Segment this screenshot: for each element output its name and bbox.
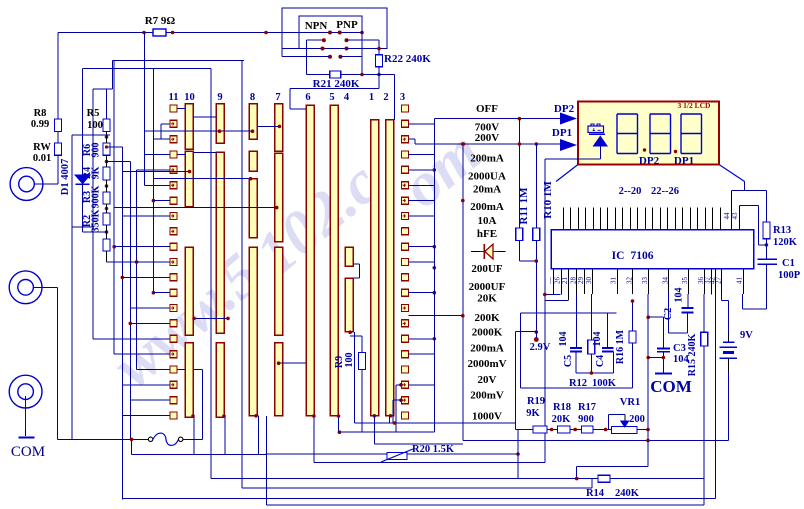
- svg-text:0.01: 0.01: [33, 153, 51, 164]
- svg-text:2000K: 2000K: [472, 326, 503, 338]
- junction 2.9V: [535, 330, 539, 334]
- wire C3 top link: [648, 316, 663, 318]
- wire tap to switch row 18: [137, 368, 170, 370]
- wire tap to switch row 20: [130, 399, 170, 401]
- svg-text:R15 240K: R15 240K: [687, 334, 698, 377]
- svg-text:COM: COM: [11, 444, 45, 460]
- wire socket left leg: [281, 49, 283, 57]
- wire pin35 to C2: [687, 294, 689, 308]
- switch bar col10 seg2: [185, 151, 193, 207]
- battery 9V: [723, 341, 734, 343]
- wire R14 bus: [211, 478, 704, 480]
- resistor R13: [763, 222, 770, 239]
- box around divider resistors: [71, 135, 73, 227]
- svg-text:D1 4007: D1 4007: [60, 159, 71, 195]
- svg-text:2.9V: 2.9V: [530, 342, 551, 353]
- svg-text:20mA: 20mA: [473, 184, 501, 196]
- resistor R10: [533, 228, 540, 241]
- svg-text:DP2: DP2: [639, 155, 660, 167]
- svg-text:C5: C5: [563, 355, 574, 367]
- wire R12 bottom: [590, 354, 592, 373]
- svg-text:R22 240K: R22 240K: [384, 53, 431, 65]
- svg-text:COM: COM: [650, 377, 692, 396]
- wire 200V row: [415, 143, 560, 145]
- wire pin44 to R13: [732, 190, 767, 192]
- wire bus C: [122, 497, 715, 499]
- svg-text:20K: 20K: [477, 293, 497, 305]
- capacitor C5: [570, 347, 582, 349]
- wire C5 bottom: [575, 352, 577, 374]
- IC pin 43: [739, 206, 741, 230]
- wire C1 to pin41: [766, 264, 768, 309]
- IC U1 7106 body: [551, 230, 754, 269]
- wire R21 rail: [307, 74, 395, 76]
- svg-text:43: 43: [731, 212, 739, 220]
- resistor R15: [703, 294, 705, 332]
- switch bar col7 seg3: [275, 247, 283, 335]
- switch bar col8 seg3: [249, 179, 257, 238]
- junction col2 at 423: [393, 421, 397, 425]
- svg-text:C3: C3: [673, 343, 686, 354]
- svg-text:32: 32: [626, 277, 634, 285]
- wire mesh v x144: [144, 33, 146, 186]
- jack COM input: [9, 375, 42, 408]
- wire col3 row16 tap: [409, 338, 435, 340]
- svg-text:7106: 7106: [631, 250, 654, 262]
- wire tap to switch row 5: [137, 169, 170, 171]
- wire col6 bottom: [313, 416, 315, 463]
- switch contact col3 row 16: [402, 335, 409, 342]
- junction R14 left: [575, 477, 579, 481]
- junction col1 bottom: [373, 414, 377, 418]
- svg-text:R12: R12: [569, 378, 587, 389]
- LCD digit 2: [650, 114, 671, 154]
- junction top rail at NPN box: [360, 31, 364, 35]
- switch contact col11 row 9: [170, 228, 177, 235]
- svg-text:29: 29: [577, 277, 585, 285]
- capacitor C4: [602, 347, 614, 349]
- switch contact col3 row 4: [402, 151, 409, 158]
- svg-text:200: 200: [629, 414, 645, 425]
- switch contact col11 row 1: [170, 105, 177, 112]
- resistor R18: [558, 426, 571, 433]
- junction R16 top: [631, 299, 635, 303]
- junction R22 top: [377, 47, 381, 51]
- junction t3: [604, 428, 608, 432]
- wire pin26 link: [545, 294, 561, 296]
- resistor R8: [55, 119, 62, 132]
- wire mesh v x130: [129, 162, 131, 440]
- svg-text:200K: 200K: [474, 312, 500, 324]
- junction stem: [543, 293, 547, 297]
- wire 2.9V drop: [535, 261, 537, 332]
- wire to R19 row: [515, 332, 517, 430]
- switch contact col3 row 6: [402, 182, 409, 189]
- wire pin34 to C2: [668, 292, 670, 333]
- wire tap to switch row 6: [145, 184, 170, 186]
- junction R7 right: [171, 31, 175, 35]
- switch bar col10 seg1: [185, 104, 193, 150]
- switch contact col3 row 20: [402, 397, 409, 404]
- switch contact col3 row 3: [402, 136, 409, 143]
- wire mesh v x114: [113, 61, 115, 354]
- resistor R2: [103, 213, 110, 225]
- svg-text:VR1: VR1: [620, 397, 640, 408]
- switch contact col11 row 6: [170, 182, 177, 189]
- switch contact col11 row 10: [170, 243, 177, 250]
- svg-text:R14: R14: [586, 488, 605, 499]
- wire tap to switch row 21: [122, 415, 170, 417]
- LCD digit 1: [617, 114, 638, 154]
- svg-text:44: 44: [723, 212, 731, 220]
- svg-text:OFF: OFF: [476, 103, 498, 115]
- wire R12 drop: [590, 294, 592, 340]
- svg-text:20K: 20K: [552, 414, 572, 425]
- junction mesh b: [121, 276, 125, 280]
- wire tap to switch row 7: [153, 200, 170, 202]
- wire fuse left: [132, 438, 149, 440]
- svg-text:R11 1M: R11 1M: [518, 187, 530, 225]
- svg-text:3: 3: [400, 92, 405, 103]
- svg-text:C4: C4: [595, 355, 606, 367]
- switch contact col3 row 10: [402, 243, 409, 250]
- svg-text:R13: R13: [773, 225, 791, 236]
- switch contact col11 row 19: [170, 381, 177, 388]
- switch bar col4 seg2: [345, 278, 353, 332]
- svg-text:C2: C2: [663, 308, 674, 320]
- resistor R1: [103, 239, 110, 251]
- wire col3 row5 tap: [409, 169, 435, 171]
- wire col3 row6 tap: [409, 184, 435, 186]
- junction t2: [573, 428, 577, 432]
- wire link col7 tap: [114, 207, 277, 209]
- switch bar col1: [371, 120, 379, 416]
- wire col9 bottom drop: [224, 417, 226, 455]
- wire trim row: [516, 429, 649, 431]
- wire pin33 drop: [647, 294, 649, 430]
- svg-text:PNP: PNP: [336, 19, 358, 31]
- resistor R17: [582, 426, 594, 433]
- COM terminal stub: [25, 396, 27, 430]
- arrow DP2: [560, 113, 577, 125]
- wire mesh v x161: [160, 124, 162, 139]
- capacitor C2: [682, 307, 694, 309]
- wire mesh v x122: [121, 147, 123, 500]
- junction C3 lead: [662, 356, 666, 360]
- wire mesh tap R6 junction: [107, 146, 123, 148]
- svg-text:27: 27: [714, 277, 722, 285]
- junction R21 right: [360, 73, 364, 77]
- wire socket row4: [282, 56, 329, 58]
- resistor RW: [55, 143, 62, 155]
- wire bus B riser: [210, 69, 212, 479]
- wire tap to switch row 15: [130, 322, 170, 324]
- wire LCD right diagonal: [719, 165, 745, 182]
- wire link col7-col6: [279, 362, 306, 364]
- svg-text:100P: 100P: [778, 270, 801, 281]
- wire VR1 to battery: [647, 430, 649, 441]
- switch contact col3 row 14: [402, 305, 409, 312]
- wire R22 to col6: [290, 88, 379, 90]
- switch contact col11 row 21: [170, 412, 177, 419]
- svg-text:35: 35: [681, 277, 689, 285]
- switch bar col10 seg4: [185, 343, 193, 418]
- svg-text:C1: C1: [782, 258, 795, 269]
- switch bar col9 seg1: [216, 104, 224, 144]
- svg-text:10: 10: [184, 92, 195, 103]
- wire tap to switch row 13: [153, 292, 170, 294]
- svg-text:200V: 200V: [475, 132, 500, 144]
- IC top pins 2-26: [564, 208, 721, 230]
- switch contact col11 row 4: [170, 151, 177, 158]
- wire tap to switch row 2: [161, 123, 170, 125]
- resistor R9: [361, 336, 363, 353]
- decorative watermark: [100, 118, 493, 401]
- svg-text:NPN: NPN: [305, 20, 328, 32]
- svg-text:hFE: hFE: [477, 228, 497, 240]
- junction mesh f: [152, 291, 156, 295]
- wire col3 row10 tap: [409, 246, 435, 248]
- wire C3 junction link: [648, 357, 663, 359]
- svg-text:DP1: DP1: [674, 155, 694, 167]
- resistor R20: [387, 453, 407, 460]
- svg-text:104: 104: [592, 332, 603, 347]
- svg-text:7: 7: [275, 92, 280, 103]
- svg-text:2: 2: [383, 92, 388, 103]
- wire LCD left diagonal: [556, 165, 578, 182]
- wire link col9 tap: [145, 130, 253, 132]
- resistor R14: [598, 475, 610, 482]
- resistor R7: [153, 29, 166, 36]
- switch contact col3 row 17: [402, 351, 409, 358]
- junction rail B: [461, 142, 465, 146]
- switch bar col8 seg2: [249, 151, 257, 171]
- wire col3 row19 left branch: [399, 383, 403, 387]
- jack 10A input: [9, 271, 42, 304]
- junction col8 bottom: [254, 414, 258, 418]
- wire col10 bottom drop: [193, 417, 195, 455]
- svg-text:DP1: DP1: [552, 127, 572, 139]
- junction R11 at 200V: [518, 142, 522, 146]
- switch contact col11 row 5: [170, 166, 177, 173]
- diode D1: [75, 175, 90, 184]
- IC pin 44: [731, 191, 733, 230]
- transistor socket inner box: [299, 16, 362, 49]
- junction 200V b: [535, 142, 539, 146]
- wire tap to switch row 14: [130, 307, 170, 309]
- switch contact col11 row 20: [170, 397, 177, 404]
- labels IC bottom pins: [546, 276, 744, 285]
- svg-text:8: 8: [250, 92, 255, 103]
- svg-text:IC: IC: [612, 250, 625, 262]
- svg-text:5: 5: [329, 92, 334, 103]
- wire tap to switch row 19: [122, 384, 170, 386]
- wire col5 bottom: [338, 416, 340, 433]
- wire tap to switch row 8: [122, 215, 170, 217]
- switch contact col11 row 18: [170, 366, 177, 373]
- switch contact col3 row 5: [402, 166, 409, 173]
- wire tap to switch row 17: [114, 353, 170, 355]
- socket pins row3: [321, 47, 325, 51]
- switch contact col3 row 19: [402, 381, 409, 388]
- switch contact col11 row 16: [170, 335, 177, 342]
- wire link col4 segs: [353, 263, 359, 265]
- svg-text:120K: 120K: [773, 237, 798, 248]
- switch contact col11 row 3: [170, 136, 177, 143]
- IC bottom pin stubs: [554, 269, 744, 301]
- switch bar col10 seg3: [185, 247, 193, 335]
- wire col3 row13 tap: [409, 292, 435, 294]
- junction rail taps: [433, 168, 437, 172]
- svg-text:900K: 900K: [91, 185, 102, 208]
- svg-text:9V: 9V: [740, 330, 753, 341]
- switch contact col3 row 11: [402, 259, 409, 266]
- wire R11-R10 join: [518, 241, 520, 262]
- resistor R16: [632, 301, 634, 331]
- svg-text:R16 1M: R16 1M: [615, 329, 626, 364]
- wire jack2 riser: [33, 286, 57, 288]
- wire R9 bus: [339, 431, 435, 433]
- wire stem drop: [544, 159, 546, 463]
- wire col3 row20 left branch: [399, 398, 403, 402]
- wire bus A: [131, 439, 133, 454]
- resistor R12: [588, 340, 595, 354]
- wire pin21 link: [545, 300, 568, 302]
- switch bar col9 seg2: [216, 152, 224, 333]
- wire bus 488: [241, 61, 243, 488]
- svg-text:900: 900: [91, 143, 102, 158]
- testpoint 2.9V: [535, 332, 537, 338]
- switch contact col11 row 15: [170, 320, 177, 327]
- switch contact col3 row 12: [402, 274, 409, 281]
- svg-text:R7 9Ω: R7 9Ω: [145, 15, 176, 27]
- wire col3 row3 to 200V: [409, 138, 416, 140]
- junction OFF: [518, 117, 522, 121]
- diode range symbol: [471, 251, 480, 253]
- resistor R22: [378, 40, 380, 55]
- wire mid link: [647, 440, 649, 466]
- junction R13 bottom: [765, 243, 769, 247]
- svg-text:DP2: DP2: [554, 103, 575, 115]
- wire col4 left drop: [354, 332, 356, 423]
- LCD annunciator arrow: [593, 136, 609, 147]
- svg-text:R5: R5: [87, 108, 100, 119]
- diode D1 wire: [82, 69, 84, 176]
- wire col3 row11 tap: [409, 261, 435, 263]
- svg-text:4: 4: [344, 92, 350, 103]
- junction R10 bottom: [535, 259, 539, 263]
- switch contact col11 row 14: [170, 305, 177, 312]
- wire tap to switch row 12: [122, 276, 170, 278]
- potentiometer VR1: [612, 427, 638, 434]
- svg-text:21: 21: [561, 277, 569, 285]
- wire pin31 link: [521, 312, 617, 314]
- COM terminal: [655, 372, 672, 374]
- capacitor C3: [657, 348, 670, 350]
- switch contact col11 row 11: [170, 259, 177, 266]
- junction pin33 C3 top: [646, 315, 650, 319]
- svg-text:31: 31: [610, 277, 618, 285]
- switch bar col7 seg4: [275, 343, 283, 416]
- svg-text:R18: R18: [553, 402, 571, 413]
- svg-text:900: 900: [578, 414, 594, 425]
- wire fuse right riser: [183, 438, 203, 440]
- wire link col10-col9 row: [193, 152, 216, 154]
- svg-text:9K: 9K: [526, 408, 540, 419]
- svg-text:1000V: 1000V: [472, 411, 502, 423]
- wire RW to jack: [57, 155, 59, 184]
- svg-text:30: 30: [585, 277, 593, 285]
- switch contact col11 row 13: [170, 289, 177, 296]
- switch bar col5: [330, 105, 338, 415]
- range labels list: [467, 103, 506, 423]
- svg-text:240K: 240K: [615, 488, 640, 499]
- switch contact col3 row 1: [402, 105, 409, 112]
- wire tap to switch row 10: [114, 246, 170, 248]
- switch contact col11 row 8: [170, 212, 177, 219]
- wire tap to switch row 4: [145, 154, 170, 156]
- wire pin43 jog: [740, 205, 759, 207]
- svg-text:350K: 350K: [91, 209, 102, 232]
- switch contact col3 row 18: [402, 366, 409, 373]
- switch contact col11 row 7: [170, 197, 177, 204]
- junction mesh c: [129, 322, 133, 326]
- junction top rail: [264, 31, 268, 35]
- switch bar col9 seg3: [216, 343, 224, 418]
- wire tap to switch row 11: [107, 261, 171, 263]
- junction mesh d: [135, 260, 139, 264]
- switch bar col4 seg1: [345, 247, 353, 266]
- wire R20 drop: [517, 430, 519, 479]
- wire col3 row2 tap: [409, 123, 435, 125]
- junction vb: [646, 439, 650, 443]
- wire R20 row: [266, 453, 518, 455]
- switch bar col8 seg1: [249, 104, 257, 139]
- svg-text:0.99: 0.99: [31, 119, 49, 130]
- wire pin27 to battery: [720, 294, 722, 301]
- wire link col10 tap: [122, 171, 189, 173]
- wire 2.9V left: [516, 331, 537, 333]
- junction col6 bottom: [312, 414, 316, 418]
- socket pins row1: [328, 31, 332, 35]
- wire r16 bottom rail: [520, 313, 522, 388]
- wire col2 bottom: [389, 416, 391, 424]
- junction t4: [646, 428, 650, 432]
- junction col4 bottom: [348, 330, 352, 334]
- wire 200K row link: [409, 315, 463, 317]
- wire R5 top: [111, 61, 113, 89]
- wire col3 row19 tap: [409, 384, 435, 386]
- junction R2-R1: [105, 230, 109, 234]
- svg-text:1: 1: [369, 92, 374, 103]
- wire top rail 2: [112, 60, 244, 62]
- wire R8-RW: [57, 132, 59, 144]
- transistor socket outer box: [282, 8, 387, 49]
- junction R6-R4: [105, 160, 109, 164]
- socket pins row2: [322, 38, 326, 42]
- wire D1 cathode: [82, 184, 84, 232]
- resistor R4: [103, 167, 110, 180]
- svg-text:R19: R19: [527, 396, 545, 407]
- wire LCD arrow stem: [600, 147, 602, 159]
- svg-text:3 1/2 LCD: 3 1/2 LCD: [678, 101, 712, 110]
- svg-text:11: 11: [169, 92, 179, 103]
- wire col3 row8 tap: [409, 215, 435, 217]
- junction R12 bottom: [590, 371, 594, 375]
- switch contact col3 row 21: [402, 412, 409, 419]
- wire to col2 top: [393, 75, 395, 120]
- svg-text:9K: 9K: [91, 166, 102, 179]
